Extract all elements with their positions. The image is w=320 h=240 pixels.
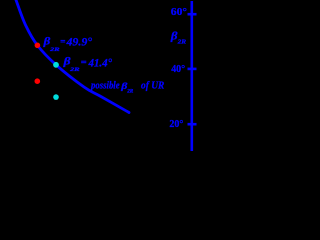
svg-text:2R: 2R — [176, 39, 186, 46]
svg-text:β: β — [42, 36, 51, 47]
svg-text:β: β — [170, 31, 178, 43]
svg-text:2R: 2R — [49, 47, 60, 53]
svg-text:20°: 20° — [169, 118, 183, 130]
svg-text:2R: 2R — [126, 89, 133, 95]
svg-text:41.4°: 41.4° — [88, 58, 113, 70]
svg-text:60°: 60° — [171, 6, 187, 18]
svg-text:β: β — [62, 57, 71, 68]
svg-text:40°: 40° — [171, 63, 185, 75]
svg-text:49.9°: 49.9° — [65, 37, 92, 49]
svg-text:2R: 2R — [69, 67, 80, 73]
svg-text:of UR: of UR — [141, 80, 164, 91]
svg-text:possible: possible — [90, 80, 120, 91]
